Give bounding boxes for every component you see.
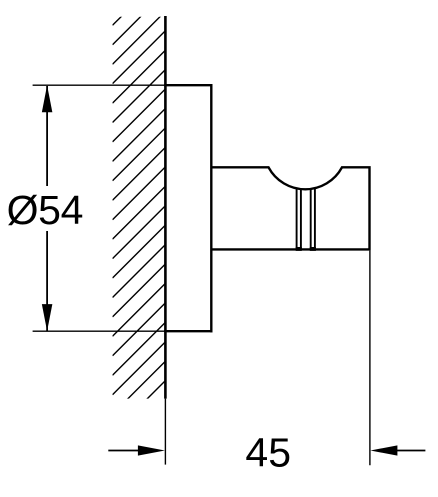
extension line bottom (O54 dim) xyxy=(33,330,165,332)
down arrow xyxy=(42,304,53,331)
45 dimension left arrow xyxy=(108,450,140,452)
O54 dimension line xyxy=(46,86,48,186)
wall plate outline xyxy=(164,84,212,332)
wall hatching xyxy=(113,0,173,434)
svg-text:Ø54: Ø54 xyxy=(7,187,84,233)
hook body outline xyxy=(211,167,369,249)
up arrow xyxy=(42,85,53,112)
hook right extension line (45 dim, right) xyxy=(369,251,371,466)
wall extension line (45 dim, left) xyxy=(164,399,166,465)
45 dimension right arrow xyxy=(396,450,425,452)
extension line top (O54 dim) xyxy=(33,84,165,86)
waist edge lines xyxy=(297,188,315,249)
wall surface line xyxy=(164,16,167,399)
waist feet tabs xyxy=(296,247,302,251)
svg-text:45: 45 xyxy=(245,429,291,475)
